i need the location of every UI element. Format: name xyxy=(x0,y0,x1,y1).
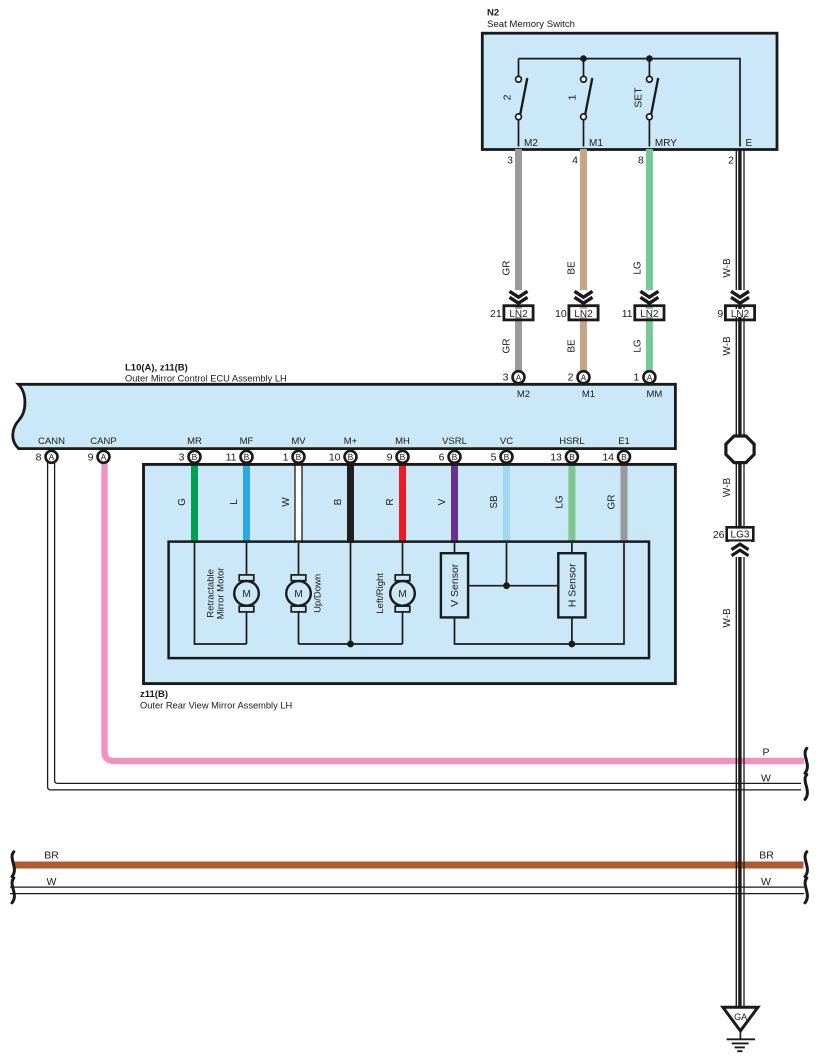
svg-text:M: M xyxy=(294,589,302,600)
svg-text:9: 9 xyxy=(717,308,723,320)
svg-text:W-B: W-B xyxy=(722,258,733,278)
pin number 3 (N2 bottom) xyxy=(507,155,513,167)
pin 3 connector B circle (MR) xyxy=(189,451,201,463)
svg-text:G: G xyxy=(177,498,188,506)
connector arrow into LN2 (pin 21) xyxy=(508,290,529,305)
svg-text:z11(B): z11(B) xyxy=(140,689,168,700)
label pin MR inside ECU bottom xyxy=(187,436,202,447)
pin 1 connector B circle (MV) xyxy=(293,451,305,463)
wire GR (ECU to mirror internals) xyxy=(621,460,628,543)
label wire color BE lower xyxy=(567,339,578,353)
break symbol BR right xyxy=(805,852,807,877)
svg-text:MRY: MRY xyxy=(655,138,677,149)
svg-text:4: 4 xyxy=(572,155,578,167)
pin 11 connector B circle (MF) xyxy=(241,451,253,463)
svg-text:3: 3 xyxy=(503,372,509,384)
label W-B (below LN2) xyxy=(722,336,733,356)
wire SB (ECU to mirror internals) xyxy=(503,460,510,543)
wire sensor ground bus to E1 (GR) xyxy=(455,543,625,644)
label wire color W xyxy=(281,497,292,507)
svg-text:GA: GA xyxy=(734,1012,747,1022)
svg-text:HSRL: HSRL xyxy=(559,436,584,447)
label wire color B xyxy=(333,498,344,505)
svg-text:B: B xyxy=(296,452,302,462)
svg-text:BE: BE xyxy=(567,339,578,353)
label BR right xyxy=(759,850,774,862)
pin number 10 (ECU bottom) xyxy=(329,451,341,463)
svg-text:MV: MV xyxy=(291,436,306,447)
svg-text:LG3: LG3 xyxy=(731,530,750,541)
label wire color GR xyxy=(607,495,618,510)
svg-text:B: B xyxy=(244,452,250,462)
svg-text:26: 26 xyxy=(713,529,725,541)
connector LN2 pin 11 xyxy=(622,306,664,320)
svg-text:MH: MH xyxy=(395,436,410,447)
svg-text:Up/Down: Up/Down xyxy=(313,574,324,613)
pin 14 connector B circle (E1) xyxy=(618,451,630,463)
svg-text:M: M xyxy=(242,589,250,600)
svg-text:B: B xyxy=(348,452,354,462)
label BR left xyxy=(44,850,59,862)
pin number 1 (ECU bottom) xyxy=(283,451,289,463)
wire CANN W white (double line to right edge) xyxy=(48,461,801,790)
wire L (ECU to mirror internals) xyxy=(243,460,250,543)
svg-text:8: 8 xyxy=(638,155,644,167)
connector arrow up (below LG3) xyxy=(729,542,751,558)
svg-text:10: 10 xyxy=(329,451,341,463)
svg-text:A: A xyxy=(49,452,55,462)
mirror internal circuit boundary rect xyxy=(169,542,649,659)
svg-text:1: 1 xyxy=(283,451,289,463)
component L10(A),z11(B) Outer Mirror Control ECU Assembly LH box xyxy=(13,384,676,448)
svg-text:14: 14 xyxy=(602,451,614,463)
svg-text:2: 2 xyxy=(502,94,514,100)
wire W (ECU to mirror internals) xyxy=(295,460,302,543)
wire G (ECU to mirror internals) xyxy=(191,460,198,543)
label pin MV inside ECU bottom xyxy=(291,436,306,447)
wire BE from N2 pin 4 to ECU xyxy=(580,149,587,372)
junction dot H sensor ground xyxy=(569,641,576,648)
svg-text:LN2: LN2 xyxy=(509,309,528,320)
svg-text:A: A xyxy=(647,372,653,382)
svg-text:W: W xyxy=(761,773,771,785)
svg-text:W-B: W-B xyxy=(722,336,733,356)
svg-text:Outer Rear View Mirror Assembl: Outer Rear View Mirror Assembly LH xyxy=(140,701,292,711)
svg-text:BE: BE xyxy=(567,261,578,275)
svg-text:8: 8 xyxy=(36,451,42,463)
label pin VC inside ECU bottom xyxy=(500,436,513,447)
svg-text:LG: LG xyxy=(632,261,643,275)
svg-text:1: 1 xyxy=(567,94,579,100)
pin 9 connector B circle (MH) xyxy=(397,451,409,463)
connector LG3 pin 26 xyxy=(713,527,753,541)
label Up/Down xyxy=(313,574,324,613)
connector arrow into LN2 (pin 10) xyxy=(573,290,594,305)
label wire color R xyxy=(385,498,396,505)
svg-text:A: A xyxy=(516,372,522,382)
svg-text:M+: M+ xyxy=(344,436,358,447)
label N2 xyxy=(487,8,499,19)
switch 2 (M2) xyxy=(516,59,528,147)
svg-text:11: 11 xyxy=(622,308,633,320)
label pin M2 inside N2 xyxy=(524,138,538,149)
svg-text:V Sensor: V Sensor xyxy=(449,563,461,607)
svg-text:B: B xyxy=(569,452,575,462)
svg-text:V: V xyxy=(437,498,448,505)
svg-text:3: 3 xyxy=(507,155,513,167)
wire GR from N2 pin 3 to ECU xyxy=(515,149,522,372)
break symbol W right (upper) xyxy=(805,775,807,800)
svg-text:MR: MR xyxy=(187,436,202,447)
svg-text:MM: MM xyxy=(646,389,662,400)
label Left/Right xyxy=(375,573,386,614)
label W-B (lower) xyxy=(722,608,733,628)
label switch SET xyxy=(632,87,644,108)
break symbol W left (bottom) xyxy=(12,878,14,903)
label wire color V xyxy=(437,498,448,505)
label switch 2 xyxy=(502,94,514,100)
svg-text:N2: N2 xyxy=(487,8,499,19)
svg-text:9: 9 xyxy=(88,451,94,463)
pin number 4 (N2 bottom) xyxy=(572,155,578,167)
label W bottom left xyxy=(47,876,57,888)
pin 1 connector A circle (MM) xyxy=(643,371,655,383)
svg-text:E: E xyxy=(746,138,753,149)
wire W white horizontal (double line) xyxy=(10,887,804,894)
label wire color L xyxy=(229,499,240,505)
wire switch common bus xyxy=(519,59,741,147)
label W bottom right xyxy=(761,876,771,888)
connector arrow into LN2 (pin 11) xyxy=(639,290,660,305)
switch 1 (M1) xyxy=(581,59,593,147)
H Sensor xyxy=(558,553,585,617)
junction dot M+ xyxy=(347,641,354,648)
pin 10 connector B circle (M+) xyxy=(345,451,357,463)
pin number 9 (ECU bottom) xyxy=(88,451,94,463)
svg-text:A: A xyxy=(581,372,587,382)
junction dot on bus at M1 xyxy=(580,55,587,62)
wire MR branch (G) to retract motor loop xyxy=(195,543,247,644)
svg-text:CANP: CANP xyxy=(90,436,116,447)
label pin M2 inside ECU xyxy=(517,389,530,400)
wire LG from N2 pin 8 to ECU xyxy=(646,149,653,372)
label pin MM inside ECU xyxy=(646,389,662,400)
label wire color LG lower xyxy=(632,339,643,353)
label Retractable Mirror Motor xyxy=(206,568,227,620)
svg-text:Seat Memory Switch: Seat Memory Switch xyxy=(487,19,575,30)
label wire color SB xyxy=(489,495,500,509)
svg-text:LN2: LN2 xyxy=(731,309,750,320)
svg-text:L10(A), z11(B): L10(A), z11(B) xyxy=(125,363,188,374)
svg-text:W-B: W-B xyxy=(722,478,733,498)
svg-text:SET: SET xyxy=(632,87,644,108)
svg-text:11: 11 xyxy=(226,451,237,463)
svg-text:A: A xyxy=(101,452,107,462)
pin number 8 (ECU bottom) xyxy=(36,451,42,463)
svg-text:E1: E1 xyxy=(618,436,630,447)
wire V (ECU to mirror internals) xyxy=(451,460,458,543)
motor M up/down xyxy=(286,543,311,644)
label L10(A), z11(B) xyxy=(125,363,188,374)
svg-text:B: B xyxy=(333,498,344,505)
svg-text:M2: M2 xyxy=(524,138,538,149)
connector LN2 pin 10 xyxy=(555,306,598,320)
pin 13 connector B circle (HSRL) xyxy=(566,451,578,463)
label pin M1 inside ECU xyxy=(582,389,595,400)
wire CANP P pink (vertical+horizontal to right edge) xyxy=(105,461,805,761)
wire LG (ECU to mirror internals) xyxy=(568,460,575,543)
label pin CANN inside ECU bottom xyxy=(38,436,65,447)
label pin VSRL inside ECU bottom xyxy=(442,436,467,447)
pin 8 connector A circle (CANN) xyxy=(46,451,58,463)
label pin HSRL inside ECU bottom xyxy=(559,436,584,447)
svg-text:VSRL: VSRL xyxy=(442,436,467,447)
label wire color GR upper xyxy=(502,261,513,276)
svg-text:B: B xyxy=(192,452,198,462)
svg-text:W: W xyxy=(47,876,57,888)
connector LN2 pin 21 xyxy=(490,306,533,320)
ground GA symbol xyxy=(723,1007,758,1051)
label Outer Rear View Mirror Assembly LH xyxy=(140,701,292,711)
svg-text:2: 2 xyxy=(568,372,574,384)
label switch 1 xyxy=(567,94,579,100)
switch SET (MRY) xyxy=(647,59,659,147)
label wire color LG upper xyxy=(632,261,643,275)
svg-text:2: 2 xyxy=(728,155,734,167)
svg-text:VC: VC xyxy=(500,436,513,447)
label Outer Mirror Control ECU Assembly LH xyxy=(125,374,287,384)
svg-text:Mirror Motor: Mirror Motor xyxy=(216,568,227,620)
pin number 14 (ECU bottom) xyxy=(602,451,614,463)
wire VC branch to sensors xyxy=(468,543,558,586)
pin 2 connector A circle (M1) xyxy=(578,371,590,383)
svg-text:5: 5 xyxy=(491,451,497,463)
svg-text:M1: M1 xyxy=(589,138,603,149)
pin number 5 (ECU bottom) xyxy=(491,451,497,463)
svg-text:B: B xyxy=(621,452,627,462)
label pin CANP inside ECU bottom xyxy=(90,436,116,447)
label wire color BE upper xyxy=(567,261,578,275)
svg-text:LN2: LN2 xyxy=(574,309,593,320)
label pin E inside N2 xyxy=(746,138,753,149)
component z11(B) Outer Rear View Mirror Assembly LH box xyxy=(144,464,676,683)
svg-text:H Sensor: H Sensor xyxy=(567,563,579,607)
label P xyxy=(762,747,769,759)
break symbol BR left xyxy=(12,852,14,877)
svg-text:R: R xyxy=(385,498,396,505)
svg-text:3: 3 xyxy=(179,451,185,463)
svg-text:Left/Right: Left/Right xyxy=(375,573,386,614)
label pin M+ inside ECU bottom xyxy=(344,436,358,447)
wire M+ branch (B) xyxy=(299,543,403,644)
mirror assembly box border xyxy=(144,464,676,683)
break symbol W right (bottom) xyxy=(805,878,807,903)
svg-text:W: W xyxy=(761,876,771,888)
svg-text:LG: LG xyxy=(632,339,643,353)
svg-text:10: 10 xyxy=(555,308,567,320)
svg-text:BR: BR xyxy=(44,850,59,862)
V Sensor xyxy=(441,553,468,617)
label W-B (upper) xyxy=(722,258,733,278)
svg-text:LN2: LN2 xyxy=(640,309,659,320)
svg-text:21: 21 xyxy=(490,308,502,320)
pin number 1 (ECU top) xyxy=(634,372,640,384)
label wire color G xyxy=(177,498,188,506)
wire R (ECU to mirror internals) xyxy=(399,460,406,543)
label pin M1 inside N2 xyxy=(589,138,603,149)
pin 9 connector A circle (CANP) xyxy=(98,451,110,463)
pin number 3 (ECU bottom) xyxy=(179,451,185,463)
svg-text:M: M xyxy=(398,589,406,600)
connector octagon on W-B line xyxy=(726,436,754,463)
label z11(B) xyxy=(140,689,168,700)
connector LN2 pin 9 xyxy=(717,306,754,320)
label W (CANN wire) xyxy=(761,773,771,785)
pin number 13 (ECU bottom) xyxy=(550,451,562,463)
wire B (ECU to mirror internals) xyxy=(347,460,354,543)
svg-text:BR: BR xyxy=(759,850,774,862)
junction dot VC xyxy=(503,582,510,589)
label W-B (below octagon) xyxy=(722,478,733,498)
pin number 9 (ECU bottom) xyxy=(387,451,393,463)
svg-text:GR: GR xyxy=(502,261,513,276)
svg-text:M1: M1 xyxy=(582,389,595,400)
svg-text:GR: GR xyxy=(502,339,513,354)
label pin MF inside ECU bottom xyxy=(240,436,254,447)
svg-text:LG: LG xyxy=(554,495,565,509)
label Seat Memory Switch xyxy=(487,19,575,30)
label wire color GR lower xyxy=(502,339,513,354)
pin number 3 (ECU top) xyxy=(503,372,509,384)
motor M retractable mirror motor xyxy=(234,543,259,644)
wire E W-B (white-black) vertical xyxy=(736,149,744,1007)
svg-text:B: B xyxy=(400,452,406,462)
svg-text:SB: SB xyxy=(489,495,500,509)
pin 3 connector A circle (M2) xyxy=(513,371,525,383)
svg-text:W: W xyxy=(281,497,292,507)
svg-text:6: 6 xyxy=(439,451,445,463)
connector arrow into LN2 (pin 9, W-B) xyxy=(730,290,751,305)
pin 6 connector B circle (VSRL) xyxy=(449,451,461,463)
component N2 Seat Memory Switch box xyxy=(482,33,777,149)
pin 5 connector B circle (VC) xyxy=(501,451,513,463)
pin number 2 (ECU top) xyxy=(568,372,574,384)
svg-text:L: L xyxy=(229,499,240,505)
label pin MH inside ECU bottom xyxy=(395,436,410,447)
svg-text:CANN: CANN xyxy=(38,436,65,447)
junction dot on bus at MRY xyxy=(646,55,653,62)
svg-text:MF: MF xyxy=(240,436,254,447)
svg-text:B: B xyxy=(452,452,458,462)
wire VSRL branch (V) to V sensor xyxy=(454,543,456,553)
label pin E1 inside ECU bottom xyxy=(618,436,630,447)
wire HSRL branch (LG) to H sensor xyxy=(571,543,573,553)
svg-text:13: 13 xyxy=(550,451,562,463)
label pin MRY inside N2 xyxy=(655,138,677,149)
pin number 6 (ECU bottom) xyxy=(439,451,445,463)
svg-text:M2: M2 xyxy=(517,389,530,400)
wire BR brown horizontal xyxy=(14,862,804,869)
svg-text:B: B xyxy=(504,452,510,462)
break symbol P right xyxy=(805,748,807,773)
pin number 2 (E) xyxy=(728,155,734,167)
motor M left/right xyxy=(390,543,415,644)
svg-text:Outer Mirror Control ECU Assem: Outer Mirror Control ECU Assembly LH xyxy=(125,374,287,384)
pin number 8 (N2 bottom) xyxy=(638,155,644,167)
svg-text:W-B: W-B xyxy=(722,608,733,628)
pin number 11 (ECU bottom) xyxy=(226,451,237,463)
svg-text:P: P xyxy=(762,747,769,759)
label wire color LG xyxy=(554,495,565,509)
svg-text:1: 1 xyxy=(634,372,640,384)
svg-text:GR: GR xyxy=(607,495,618,510)
svg-text:9: 9 xyxy=(387,451,393,463)
